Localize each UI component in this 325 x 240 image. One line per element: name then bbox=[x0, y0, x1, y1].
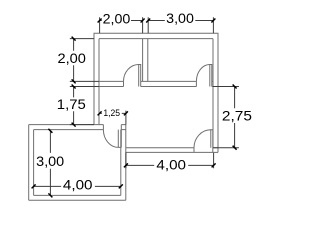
svg-text:2,00: 2,00 bbox=[103, 11, 131, 27]
svg-text:2,75: 2,75 bbox=[222, 108, 252, 124]
svg-text:4,00: 4,00 bbox=[63, 176, 93, 192]
svg-text:2,00: 2,00 bbox=[58, 50, 87, 66]
svg-text:3,00: 3,00 bbox=[166, 10, 194, 26]
svg-text:4,00: 4,00 bbox=[156, 157, 186, 173]
svg-text:1,25: 1,25 bbox=[103, 108, 120, 118]
svg-text:3,00: 3,00 bbox=[36, 153, 64, 169]
svg-text:1,75: 1,75 bbox=[57, 96, 86, 112]
